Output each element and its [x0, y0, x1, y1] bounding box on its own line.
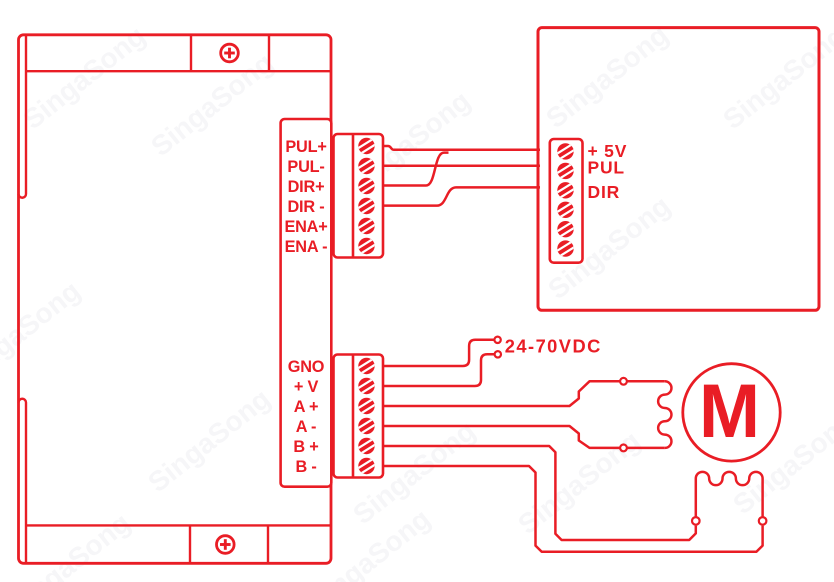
- svg-text:DIR -: DIR -: [288, 198, 325, 216]
- wire +V to supply: [383, 354, 495, 386]
- driver bottom mounting screw: [217, 536, 235, 554]
- svg-text:DIR: DIR: [588, 182, 621, 202]
- driver top bar line: [26, 70, 331, 72]
- phase A terminal circle top: [620, 378, 627, 385]
- wire A-: [383, 426, 665, 448]
- phase A winding: [658, 381, 671, 448]
- wire PUL+ to +5V: [383, 146, 540, 150]
- phase B terminal circle left: [692, 517, 700, 525]
- svg-text:ENA -: ENA -: [285, 238, 328, 256]
- controller box: [538, 28, 819, 311]
- wire B-: [383, 466, 763, 552]
- svg-text:B -: B -: [295, 458, 316, 476]
- phase B terminal circle right: [759, 517, 767, 525]
- svg-text:PUL-: PUL-: [287, 158, 324, 176]
- svg-text:PUL: PUL: [588, 158, 625, 178]
- signal block screws PUL+..ENA-: [357, 137, 377, 163]
- svg-text:SingaSong: SingaSong: [540, 19, 674, 134]
- svg-text:A -: A -: [296, 418, 317, 436]
- phase B winding with leads: [696, 472, 763, 517]
- svg-text:24-70VDC: 24-70VDC: [505, 336, 602, 357]
- svg-text:SingaSong: SingaSong: [2, 507, 136, 582]
- svg-text:SingaSong: SingaSong: [145, 47, 279, 162]
- signal terminal block: [334, 134, 384, 258]
- controller screws: [556, 142, 576, 168]
- power terminal block: [334, 355, 384, 478]
- controller terminal strip: [550, 139, 583, 263]
- wire DIR- to DIR: [383, 187, 540, 205]
- supply terminal circle top: [494, 337, 500, 343]
- wire A+: [383, 381, 665, 406]
- wire PUL- to PUL: [383, 164, 540, 167]
- svg-text:SingaSong: SingaSong: [17, 20, 151, 135]
- svg-text:ENA+: ENA+: [284, 218, 327, 236]
- svg-text:SingaSong: SingaSong: [0, 275, 86, 390]
- controller pin labels: [588, 141, 628, 202]
- svg-text:GNO: GNO: [288, 358, 325, 376]
- svg-text:M: M: [699, 369, 760, 454]
- wire DIR+ jumper up to +5V line: [383, 153, 449, 186]
- driver left rail lower tab: [19, 399, 27, 564]
- driver bottom bar divider left: [189, 525, 191, 563]
- svg-text:A +: A +: [294, 398, 319, 416]
- svg-text:SingaSong: SingaSong: [142, 383, 276, 498]
- wire GNO to supply: [383, 340, 494, 366]
- driver label panel: [281, 119, 332, 487]
- driver power pin labels: [288, 358, 325, 476]
- svg-text:SingaSong: SingaSong: [717, 20, 834, 135]
- motor circle: [683, 364, 780, 461]
- svg-text:DIR+: DIR+: [288, 178, 325, 196]
- driver signal pin labels: [284, 138, 327, 256]
- driver bottom bar divider right: [267, 525, 269, 563]
- driver bottom bar line: [26, 524, 331, 526]
- phase A terminal circle bottom: [620, 445, 627, 452]
- driver left rail upper tab: [19, 35, 27, 198]
- driver top bar divider right: [268, 35, 270, 71]
- svg-text:+ V: + V: [294, 378, 319, 396]
- wire B+: [383, 446, 696, 540]
- driver top bar divider left: [190, 35, 192, 71]
- driver box body: [19, 35, 332, 564]
- power block screws GNO..B-: [357, 357, 377, 383]
- driver top mounting screw: [221, 44, 239, 62]
- svg-text:B +: B +: [293, 438, 318, 456]
- svg-text:PUL+: PUL+: [285, 138, 326, 156]
- supply terminal circle bottom: [495, 351, 501, 357]
